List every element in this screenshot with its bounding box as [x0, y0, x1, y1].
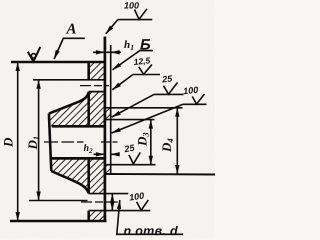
flange left face [87, 62, 90, 221]
hatch spigot upper cell [105, 108, 111, 120]
leader of 25 top [112, 94, 154, 117]
leader n otv.d [117, 200, 183, 234]
hatch flange+web mid-lower cell [51, 158, 105, 193]
hatch spigot lower cell [105, 165, 111, 174]
vee of 12,5 [139, 65, 152, 75]
bore top edge [52, 125, 105, 128]
leader of 100 top-left [106, 20, 118, 34]
svg-text:D: D [1, 137, 16, 148]
svg-text:25: 25 [161, 73, 174, 84]
svg-text:Б: Б [140, 37, 151, 54]
vee of 25 top [164, 83, 178, 95]
recess bottom edge + D3 bottom extension [105, 164, 156, 166]
dimension D4 line with arrows [176, 108, 178, 174]
hatch flange+web mid-upper cell [49, 92, 105, 126]
svg-text:100: 100 [124, 1, 139, 11]
bolt hole bottom: lower edge + extension right [89, 210, 151, 212]
D1 bottom extension line [29, 200, 88, 202]
flange bottom edge + D bottom extension line [10, 220, 107, 223]
leader of 12,5 [112, 75, 133, 90]
dimension h1 line with outside arrows [93, 51, 105, 53]
flange right face (Б) with h1 extension above [104, 37, 107, 222]
view arrow A [54, 38, 85, 59]
hub left face [49, 114, 51, 171]
svg-text:A: A [66, 22, 77, 38]
svg-text:100: 100 [128, 191, 144, 203]
bolt hole top: centerline [80, 85, 109, 87]
bore bottom edge [52, 157, 105, 160]
dimension D1 line with arrows [38, 80, 40, 201]
svg-text:n отв. d: n отв. d [124, 224, 178, 238]
bolt hole bottom: upper edge + extension right [89, 193, 129, 195]
web top edge [49, 93, 89, 114]
bolt hole top: upper edge + D1 top extension [33, 79, 105, 81]
web bottom edge [51, 171, 88, 193]
spigot bottom edge + D4 bottom extension [105, 173, 215, 176]
dimension D3 line with arrows [150, 120, 152, 165]
no-machining symbol on top surface [28, 47, 41, 62]
dimension D line with arrows [17, 62, 19, 221]
vee of 100 top-left [135, 9, 148, 19]
dimension h2 line with outside arrows [94, 153, 105, 155]
bolt hole top: lower edge [89, 91, 105, 93]
leader of Б [113, 51, 154, 70]
leader of 100 right [112, 104, 183, 133]
flange top edge + D top extension line [11, 61, 105, 64]
spigot top edge + D4 top extension [105, 107, 183, 109]
recess top edge + D3 top extension [105, 119, 155, 121]
spigot right face + h1 extension above [110, 45, 112, 174]
main axis centerline [44, 141, 118, 143]
vee of 100 right [192, 94, 204, 104]
svg-text:100: 100 [183, 85, 199, 97]
hatch flange top cell [89, 63, 105, 80]
hatch flange bottom cell [89, 211, 105, 221]
dimension d (hole) line with arrows [111, 194, 113, 211]
vee of 100 bottom [137, 200, 149, 210]
vee of 25 near D3 (rotated) [129, 152, 140, 164]
bolt hole bottom: centerline [81, 201, 118, 203]
svg-text:12,5: 12,5 [133, 55, 151, 67]
